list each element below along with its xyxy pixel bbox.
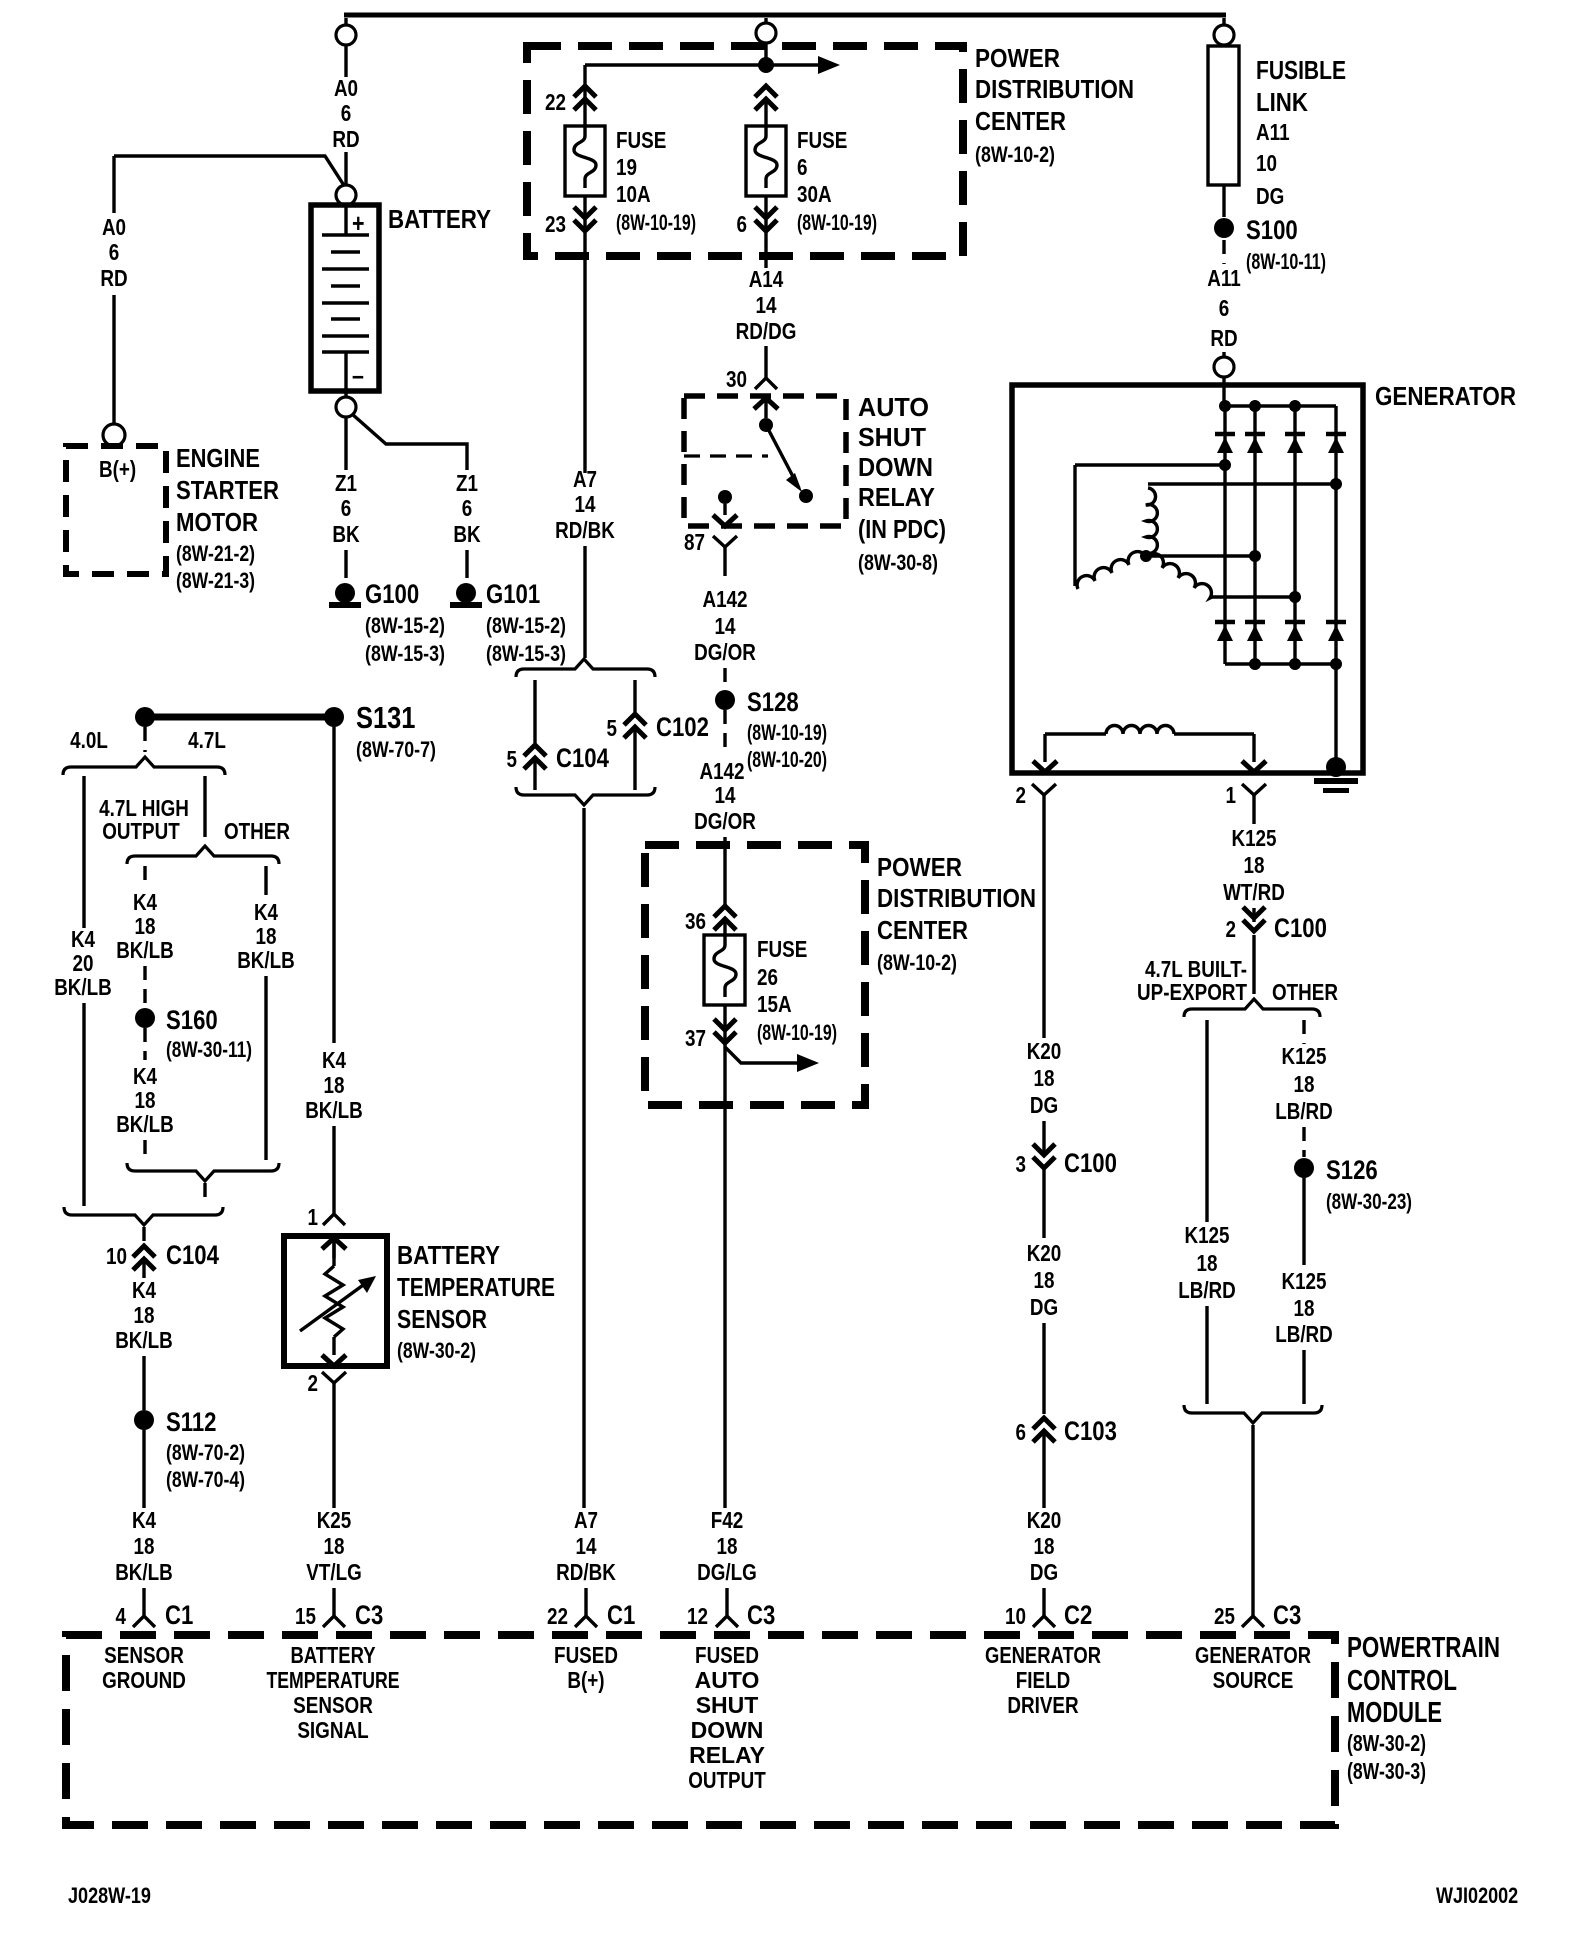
svg-text:Z1: Z1 xyxy=(456,470,478,496)
wire A7 14 RD/BK (upper) xyxy=(555,256,615,658)
svg-text:DG/OR: DG/OR xyxy=(694,639,756,665)
svg-text:UP-EXPORT: UP-EXPORT xyxy=(1137,979,1247,1005)
diode (upper 4) xyxy=(1326,434,1346,453)
svg-text:(8W-10-19): (8W-10-19) xyxy=(616,210,696,235)
wire (4.7L branch) xyxy=(203,776,206,837)
sensor bottom male pin xyxy=(322,1355,346,1366)
svg-text:CENTER: CENTER xyxy=(975,106,1066,136)
wire K20 18 DG (middle) xyxy=(1027,1168,1062,1414)
svg-text:6: 6 xyxy=(1219,295,1230,321)
svg-text:OUTPUT: OUTPUT xyxy=(102,818,180,844)
svg-text:14: 14 xyxy=(715,782,736,808)
splice S112 xyxy=(134,1407,245,1492)
svg-text:C100: C100 xyxy=(1064,1148,1117,1178)
pin 10 C2 (PCM) xyxy=(1005,1588,1092,1630)
ground G101 xyxy=(450,579,566,666)
diode (lower 4) xyxy=(1326,622,1346,641)
label OTHER xyxy=(224,818,290,844)
svg-text:B(+): B(+) xyxy=(99,456,136,482)
wire (to export split) xyxy=(1252,935,1255,994)
svg-text:(8W-10-20): (8W-10-20) xyxy=(747,747,827,772)
label SENSOR GROUND xyxy=(102,1642,186,1693)
svg-text:20: 20 xyxy=(73,950,94,976)
connector C104 pin 5 xyxy=(507,680,609,790)
label BATTERY TEMPERATURE SENSOR SIGNAL xyxy=(267,1642,400,1743)
svg-text:K20: K20 xyxy=(1027,1038,1062,1064)
svg-text:C103: C103 xyxy=(1064,1416,1117,1446)
svg-text:6: 6 xyxy=(341,100,352,126)
connector C100 pin 3 xyxy=(1016,1144,1117,1178)
svg-text:6: 6 xyxy=(462,495,473,521)
stator neutral node xyxy=(1140,550,1152,562)
svg-text:TEMPERATURE: TEMPERATURE xyxy=(267,1667,400,1693)
svg-text:(8W-30-2): (8W-30-2) xyxy=(397,1338,476,1363)
connector C102 pin 5 xyxy=(607,680,709,790)
svg-text:K25: K25 xyxy=(317,1507,352,1533)
svg-text:+: + xyxy=(352,208,365,238)
battery temperature sensor box xyxy=(284,1236,387,1366)
wire K125 18 LB/RD (other, upper) xyxy=(1275,1020,1333,1157)
svg-text:C1: C1 xyxy=(607,1600,635,1630)
svg-text:C2: C2 xyxy=(1064,1600,1092,1630)
label 4.0L xyxy=(70,727,108,753)
svg-text:C102: C102 xyxy=(656,712,709,742)
svg-text:SIGNAL: SIGNAL xyxy=(297,1717,368,1743)
svg-text:GENERATOR: GENERATOR xyxy=(985,1642,1101,1668)
svg-text:K125: K125 xyxy=(1281,1043,1326,1069)
svg-text:C3: C3 xyxy=(355,1600,383,1630)
pin 1 (battery temperature sensor) xyxy=(308,1192,346,1230)
label AUTO SHUT DOWN RELAY (IN PDC) xyxy=(858,392,946,575)
wire K4 18 BK/LB (S131 to sensor) xyxy=(305,727,363,1192)
svg-text:BK/LB: BK/LB xyxy=(116,937,174,963)
svg-text:18: 18 xyxy=(1197,1250,1218,1276)
svg-text:15: 15 xyxy=(295,1603,316,1629)
svg-text:22: 22 xyxy=(545,89,566,115)
wire Z1 6 BK (left, to G100) xyxy=(332,417,360,578)
fuse 19 10A xyxy=(565,126,696,235)
pin 2 (battery temperature sensor) xyxy=(308,1370,347,1400)
svg-text:DG: DG xyxy=(1256,183,1284,209)
svg-text:VT/LG: VT/LG xyxy=(306,1559,362,1585)
label POWERTRAIN CONTROL MODULE xyxy=(1347,1632,1500,1784)
svg-text:14: 14 xyxy=(575,491,596,517)
label 4.7L xyxy=(188,727,226,753)
wire: branch to engine starter motor xyxy=(114,156,345,187)
svg-text:18: 18 xyxy=(256,923,277,949)
wire K20 18 DG (lower) xyxy=(1027,1431,1062,1585)
brace: C102/C104 merge xyxy=(516,787,655,805)
svg-text:K125: K125 xyxy=(1184,1222,1229,1248)
svg-text:K4: K4 xyxy=(133,889,157,915)
svg-text:LB/RD: LB/RD xyxy=(1275,1098,1333,1124)
pin 87 (below relay) xyxy=(684,529,737,562)
svg-text:(8W-15-3): (8W-15-3) xyxy=(365,641,445,666)
svg-text:6: 6 xyxy=(1016,1419,1027,1445)
svg-text:RD/BK: RD/BK xyxy=(555,517,615,543)
svg-text:(8W-70-2): (8W-70-2) xyxy=(166,1440,245,1465)
wire K125 18 LB/RD (other, lower) xyxy=(1275,1178,1333,1404)
svg-text:18: 18 xyxy=(134,1302,155,1328)
svg-text:18: 18 xyxy=(1034,1533,1055,1559)
powertrain control module box xyxy=(66,1635,1335,1825)
engine starter motor terminal B(+) xyxy=(103,424,125,446)
svg-text:WT/RD: WT/RD xyxy=(1223,879,1285,905)
relay switch common node xyxy=(759,418,773,432)
svg-text:2: 2 xyxy=(1226,916,1237,942)
svg-text:FUSE: FUSE xyxy=(757,936,807,962)
relay pin 87 contact xyxy=(713,490,737,526)
svg-text:(8W-10-2): (8W-10-2) xyxy=(877,950,957,975)
svg-text:30A: 30A xyxy=(797,181,832,207)
pin 1 (generator) xyxy=(1226,782,1267,815)
svg-text:87: 87 xyxy=(684,529,705,555)
svg-text:WJI02002: WJI02002 xyxy=(1436,1883,1518,1908)
wire K4 18 BK/LB (4.7L high output) xyxy=(116,866,174,1007)
svg-text:BK/LB: BK/LB xyxy=(305,1097,363,1123)
wire: top B+ bus xyxy=(344,13,1226,18)
svg-text:POWER: POWER xyxy=(975,43,1060,73)
wire A14 14 RD/DG xyxy=(736,256,797,366)
svg-text:37: 37 xyxy=(685,1025,706,1051)
svg-text:SOURCE: SOURCE xyxy=(1213,1667,1294,1693)
diode (upper 1) xyxy=(1215,434,1235,453)
pin (fuse 6 top) xyxy=(755,86,777,126)
svg-text:FUSED: FUSED xyxy=(695,1642,759,1668)
generator internal ground xyxy=(1314,757,1358,793)
svg-text:1: 1 xyxy=(1226,782,1237,808)
svg-text:15A: 15A xyxy=(757,991,792,1017)
pin 22 C1 (PCM) xyxy=(547,1588,635,1630)
svg-text:LB/RD: LB/RD xyxy=(1178,1277,1236,1303)
splice S100 xyxy=(1214,215,1326,274)
svg-text:S131: S131 xyxy=(356,700,415,735)
svg-text:5: 5 xyxy=(507,746,518,772)
svg-text:22: 22 xyxy=(547,1603,568,1629)
svg-text:A7: A7 xyxy=(573,466,597,492)
svg-text:OUTPUT: OUTPUT xyxy=(688,1767,766,1793)
label POWER DISTRIBUTION CENTER xyxy=(975,43,1134,167)
svg-text:(8W-10-19): (8W-10-19) xyxy=(747,720,827,745)
svg-text:(8W-15-2): (8W-15-2) xyxy=(486,613,566,638)
splice S128 xyxy=(715,687,827,772)
svg-text:GENERATOR: GENERATOR xyxy=(1375,381,1516,411)
svg-text:1: 1 xyxy=(308,1204,319,1230)
svg-text:ENGINE: ENGINE xyxy=(176,443,260,473)
svg-text:(8W-30-3): (8W-30-3) xyxy=(1347,1758,1426,1784)
svg-text:BK: BK xyxy=(332,521,360,547)
svg-text:18: 18 xyxy=(1294,1071,1315,1097)
svg-text:DISTRIBUTION: DISTRIBUTION xyxy=(975,74,1134,104)
svg-text:AUTO: AUTO xyxy=(858,392,929,422)
svg-text:LB/RD: LB/RD xyxy=(1275,1321,1333,1347)
svg-text:CENTER: CENTER xyxy=(877,915,968,945)
brace: export split xyxy=(1184,999,1320,1017)
svg-text:18: 18 xyxy=(324,1072,345,1098)
ground G100 xyxy=(329,579,445,666)
svg-text:(8W-15-2): (8W-15-2) xyxy=(365,613,445,638)
svg-text:A0: A0 xyxy=(102,214,126,240)
label WJI02002 xyxy=(1436,1883,1518,1908)
svg-text:OTHER: OTHER xyxy=(1272,979,1338,1005)
svg-text:A0: A0 xyxy=(334,75,358,101)
svg-text:(8W-30-23): (8W-30-23) xyxy=(1326,1189,1412,1214)
svg-text:25: 25 xyxy=(1214,1603,1235,1629)
svg-text:DG: DG xyxy=(1030,1092,1058,1118)
brace: 4.7L split xyxy=(127,846,279,864)
svg-text:6: 6 xyxy=(109,239,120,265)
relay internal divider xyxy=(684,454,768,457)
wire A7 14 RD/BK (lower) xyxy=(556,808,616,1585)
svg-text:18: 18 xyxy=(135,913,156,939)
pin 36 (PDC lower) xyxy=(685,906,736,935)
svg-text:18: 18 xyxy=(134,1533,155,1559)
wire (to PCM pin 25) xyxy=(1251,1425,1254,1616)
svg-text:DG: DG xyxy=(1030,1559,1058,1585)
label GENERATOR FIELD DRIVER xyxy=(985,1642,1101,1718)
svg-text:POWER: POWER xyxy=(877,852,962,882)
svg-text:K4: K4 xyxy=(133,1063,157,1089)
svg-text:FUSIBLE: FUSIBLE xyxy=(1256,55,1346,85)
node: junction at fuse 6 feed xyxy=(758,57,774,73)
svg-text:2: 2 xyxy=(1016,782,1027,808)
svg-text:FUSED: FUSED xyxy=(554,1642,618,1668)
svg-text:5: 5 xyxy=(607,715,618,741)
svg-text:DG/LG: DG/LG xyxy=(697,1559,757,1585)
svg-text:18: 18 xyxy=(324,1533,345,1559)
label J028W-19 xyxy=(68,1883,151,1908)
wire K4 18 BK/LB (to S112) xyxy=(115,1259,173,1410)
svg-text:18: 18 xyxy=(1244,852,1265,878)
svg-text:A14: A14 xyxy=(749,266,784,292)
svg-text:Z1: Z1 xyxy=(335,470,357,496)
svg-text:DRIVER: DRIVER xyxy=(1007,1692,1079,1718)
fuse 6 30A xyxy=(746,126,877,235)
svg-text:SHUT: SHUT xyxy=(696,1692,759,1718)
svg-text:3: 3 xyxy=(1016,1151,1027,1177)
svg-text:6: 6 xyxy=(797,154,808,180)
svg-text:LINK: LINK xyxy=(1256,87,1308,117)
pin 6 (PDC) xyxy=(737,196,778,256)
svg-text:BATTERY: BATTERY xyxy=(397,1240,500,1270)
wire A0 6 RD (starter feed) xyxy=(100,156,127,424)
svg-text:DG/OR: DG/OR xyxy=(694,808,756,834)
svg-text:(IN PDC): (IN PDC) xyxy=(858,514,946,544)
label 4.7L HIGH OUTPUT xyxy=(99,795,189,844)
wire A0 6 RD (battery feed) xyxy=(332,45,359,186)
wire K4 18 BK/LB (below S160) xyxy=(116,1028,174,1160)
svg-text:DG: DG xyxy=(1030,1294,1058,1320)
sensor top male pin xyxy=(322,1238,346,1258)
diode (upper 3) xyxy=(1285,434,1305,453)
svg-text:GENERATOR: GENERATOR xyxy=(1195,1642,1311,1668)
fuse 26 15A xyxy=(704,935,837,1045)
diode (upper 2) xyxy=(1245,434,1265,453)
pin 2 (generator) xyxy=(1016,782,1057,815)
svg-text:K20: K20 xyxy=(1027,1240,1062,1266)
wire (fusible link to S100) xyxy=(1222,185,1225,217)
rotor field winding xyxy=(1045,726,1254,763)
terminal: fusible link top xyxy=(1214,18,1234,45)
label FUSED B(+) xyxy=(554,1642,618,1693)
svg-text:A7: A7 xyxy=(574,1507,598,1533)
wire: fused output arrow xyxy=(725,1047,819,1072)
svg-text:30: 30 xyxy=(726,366,747,392)
svg-text:RD: RD xyxy=(1210,325,1237,351)
svg-text:C104: C104 xyxy=(556,743,609,773)
wire (S131 to engine split) xyxy=(143,727,146,752)
svg-text:FUSE: FUSE xyxy=(797,127,847,153)
connector C103 pin 6 xyxy=(1016,1416,1117,1446)
svg-text:K4: K4 xyxy=(322,1047,346,1073)
svg-text:DOWN: DOWN xyxy=(858,452,933,482)
svg-text:K4: K4 xyxy=(132,1277,156,1303)
wire K25 18 VT/LG xyxy=(306,1400,362,1585)
svg-text:BK: BK xyxy=(453,521,481,547)
svg-text:26: 26 xyxy=(757,964,778,990)
generator box xyxy=(1012,385,1363,773)
svg-text:4: 4 xyxy=(116,1603,127,1629)
svg-text:STARTER: STARTER xyxy=(176,475,279,505)
svg-text:6: 6 xyxy=(737,211,748,237)
svg-text:DOWN: DOWN xyxy=(691,1717,764,1743)
svg-text:18: 18 xyxy=(135,1087,156,1113)
diode (lower 2) xyxy=(1245,622,1265,641)
svg-text:4.0L: 4.0L xyxy=(70,727,108,753)
svg-text:BK/LB: BK/LB xyxy=(116,1111,174,1137)
relay pin 30 male arrow xyxy=(754,398,778,418)
svg-text:RELAY: RELAY xyxy=(858,482,935,512)
brace: engine merge xyxy=(64,1207,223,1225)
svg-text:(8W-10-19): (8W-10-19) xyxy=(797,210,877,235)
svg-text:18: 18 xyxy=(1034,1065,1055,1091)
svg-text:(8W-21-2): (8W-21-2) xyxy=(176,541,255,566)
svg-text:C3: C3 xyxy=(747,1600,775,1630)
label BATTERY TEMPERATURE SENSOR xyxy=(397,1240,555,1363)
svg-text:BK/LB: BK/LB xyxy=(54,974,112,1000)
pin 30 (ASD relay) xyxy=(726,366,777,392)
svg-text:S112: S112 xyxy=(166,1407,217,1437)
wire F42 18 DG/LG xyxy=(697,1507,757,1585)
svg-text:MODULE: MODULE xyxy=(1347,1697,1442,1729)
label POWER DISTRIBUTION CENTER (lower) xyxy=(877,852,1036,975)
rectifier bottom bus xyxy=(1225,658,1342,670)
wire K4 18 BK/LB (other) xyxy=(237,866,295,1160)
svg-text:C104: C104 xyxy=(166,1240,219,1270)
stator phase C wire xyxy=(1212,591,1301,603)
diode (lower 3) xyxy=(1285,622,1305,641)
svg-text:POWERTRAIN: POWERTRAIN xyxy=(1347,1632,1500,1664)
svg-text:14: 14 xyxy=(756,292,777,318)
svg-text:RD/BK: RD/BK xyxy=(556,1559,616,1585)
pin 4 C1 (PCM) xyxy=(116,1588,194,1630)
svg-text:10: 10 xyxy=(1005,1603,1026,1629)
auto shut down relay box xyxy=(684,396,846,526)
svg-text:(8W-21-3): (8W-21-3) xyxy=(176,568,255,593)
svg-text:6: 6 xyxy=(341,495,352,521)
splice S131 xyxy=(135,700,436,762)
stator phase A wire xyxy=(1075,459,1231,586)
relay NO contact node xyxy=(799,489,813,503)
svg-text:MOTOR: MOTOR xyxy=(176,507,258,537)
svg-text:K4: K4 xyxy=(132,1507,156,1533)
terminal: PDC feed from bus xyxy=(756,18,776,65)
brace: C102/C104 split xyxy=(516,659,655,677)
svg-text:C3: C3 xyxy=(1273,1600,1301,1630)
svg-text:18: 18 xyxy=(1294,1295,1315,1321)
svg-text:K4: K4 xyxy=(71,926,95,952)
label FUSED AUTO SHUT DOWN RELAY OUTPUT xyxy=(688,1642,766,1793)
svg-text:A142: A142 xyxy=(699,758,744,784)
rectifier top bus xyxy=(1219,400,1336,412)
svg-text:(8W-30-2): (8W-30-2) xyxy=(1347,1730,1426,1756)
svg-text:14: 14 xyxy=(576,1533,597,1559)
connector C100 pin 2 xyxy=(1226,907,1327,943)
variable resistor element xyxy=(300,1240,376,1355)
svg-text:S100: S100 xyxy=(1246,215,1298,245)
wire K20 18 DG (upper) xyxy=(1027,815,1062,1155)
svg-text:A11: A11 xyxy=(1256,119,1290,145)
svg-text:J028W-19: J028W-19 xyxy=(68,1883,151,1908)
svg-text:C100: C100 xyxy=(1274,913,1327,943)
stator winding A (lower left) xyxy=(1077,552,1146,589)
stator phase B wire xyxy=(1148,478,1342,490)
pin 23 (PDC) xyxy=(545,196,596,256)
svg-text:RD: RD xyxy=(332,126,359,152)
svg-text:(8W-10-11): (8W-10-11) xyxy=(1246,249,1326,274)
svg-text:BK/LB: BK/LB xyxy=(115,1327,173,1353)
svg-text:(8W-10-2): (8W-10-2) xyxy=(975,142,1055,167)
svg-text:SENSOR: SENSOR xyxy=(293,1692,373,1718)
connector C104 pin 10 xyxy=(106,1240,219,1270)
brace: engine split xyxy=(63,757,225,775)
svg-text:18: 18 xyxy=(1034,1267,1055,1293)
svg-text:AUTO: AUTO xyxy=(695,1667,760,1693)
label GENERATOR xyxy=(1375,381,1516,411)
power distribution center box (lower) xyxy=(645,845,865,1105)
svg-text:K125: K125 xyxy=(1281,1268,1326,1294)
svg-text:(8W-30-11): (8W-30-11) xyxy=(166,1037,252,1062)
battery top terminal xyxy=(336,185,356,205)
wire (to C104 pin 10) xyxy=(142,1227,145,1244)
label ENGINE STARTER MOTOR xyxy=(176,443,279,593)
svg-text:4.7L: 4.7L xyxy=(188,727,226,753)
pin 37 (PDC lower) xyxy=(685,1005,736,1508)
svg-text:G100: G100 xyxy=(365,579,419,609)
svg-text:CONTROL: CONTROL xyxy=(1347,1665,1457,1697)
svg-text:SHUT: SHUT xyxy=(858,422,926,452)
svg-text:SENSOR: SENSOR xyxy=(397,1304,487,1334)
svg-text:BK/LB: BK/LB xyxy=(237,947,295,973)
wire: PDC internal feed with arrow xyxy=(585,56,840,74)
svg-text:10A: 10A xyxy=(616,181,651,207)
wire A142 14 DG/OR (upper) xyxy=(694,562,756,690)
wire (merge stub) xyxy=(203,1183,206,1205)
svg-text:12: 12 xyxy=(687,1603,708,1629)
battery bottom terminal xyxy=(336,397,356,417)
wire K4 20 BK/LB (4.0L) xyxy=(54,776,112,1206)
relay switch blade xyxy=(766,425,802,492)
svg-text:18: 18 xyxy=(717,1533,738,1559)
svg-text:14: 14 xyxy=(715,613,736,639)
splice S160 xyxy=(135,1005,252,1062)
pin 22 (PDC) xyxy=(545,65,596,126)
svg-text:10: 10 xyxy=(106,1243,127,1269)
wire K4 18 BK/LB (to PCM) xyxy=(115,1430,173,1585)
svg-text:RD/DG: RD/DG xyxy=(736,318,797,344)
svg-text:23: 23 xyxy=(545,211,566,237)
diode (lower 1) xyxy=(1215,622,1235,641)
